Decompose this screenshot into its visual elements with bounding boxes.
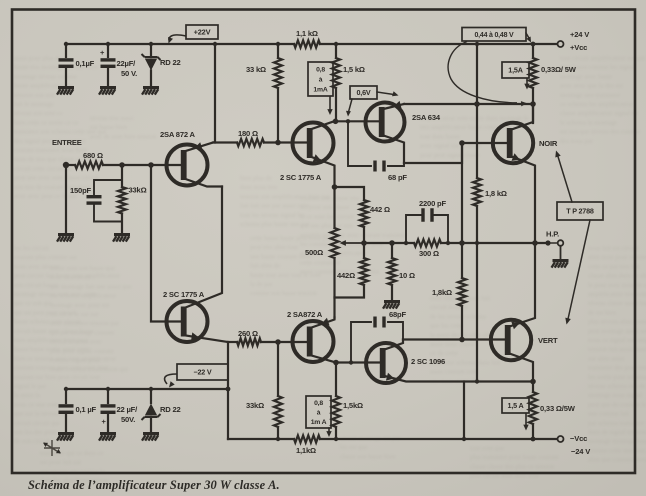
- terminal +24V (open circle): [558, 41, 564, 47]
- label -24V: [571, 447, 591, 456]
- junction input/33k node: [119, 162, 125, 168]
- label 442 Ohm upper: [370, 205, 390, 214]
- svg-text:avec avec peut ce le par: avec avec peut ce le par: [14, 193, 78, 200]
- label 2SA 872 A (Q1): [160, 130, 195, 139]
- svg-text:−22 V: −22 V: [194, 368, 212, 377]
- wire input node to ground: [65, 165, 67, 233]
- junction Q3 collector / 1,5k / Q5 base node: [333, 119, 339, 125]
- svg-text:2 SA872 A: 2 SA872 A: [287, 310, 323, 319]
- svg-text:est pour fait sur: est pour fait sur: [40, 459, 82, 466]
- junction output node / mid wire: [532, 240, 538, 246]
- svg-text:2 SC 1775 A: 2 SC 1775 A: [280, 173, 322, 182]
- svg-text:22 µF/: 22 µF/: [117, 405, 139, 414]
- svg-text:cette ce par tres fait: cette ce par tres fait: [588, 263, 640, 270]
- label 150pF: [70, 186, 92, 195]
- wire pot bottom to Q4 emitter: [333, 258, 335, 318]
- zener diode RD22 (bottom): [142, 389, 161, 432]
- svg-text:une haute courant dans: une haute courant dans: [250, 253, 311, 260]
- wire 260R to Q4 base: [261, 341, 309, 343]
- svg-text:−24 V: −24 V: [571, 447, 591, 456]
- svg-text:classe son basse bien: classe son basse bien: [340, 453, 396, 460]
- arc 0,44 box to emitter node: [448, 42, 527, 107]
- svg-text:schema plus haute une par: schema plus haute une par: [240, 221, 310, 228]
- terminal H.P. (open circle): [558, 240, 564, 246]
- svg-text:tout sont que: tout sont que: [470, 445, 504, 452]
- node output tap: [545, 240, 550, 245]
- wire Q6 collector to VERT base: [403, 338, 507, 340]
- svg-text:10 Ω: 10 Ω: [399, 271, 415, 280]
- wire Q3 emitter to pot: [333, 187, 335, 228]
- wire 300R to output node: [441, 242, 548, 244]
- svg-text:est est le le sur sur: est est le le sur sur: [50, 311, 99, 318]
- callout box 0,8 a 1mA (top): [308, 62, 333, 96]
- svg-text:alim que courant niveau plus s: alim que courant niveau plus sont: [588, 457, 646, 464]
- wire 442 upper to mid wire: [363, 227, 365, 243]
- junction drop / -Vcc rail: [462, 437, 466, 441]
- svg-text:260 Ω: 260 Ω: [238, 329, 258, 338]
- svg-text:fait fait une par aussi cette: fait fait une par aussi cette: [240, 203, 309, 210]
- svg-text:que montage fait une aussi que: que montage fait une aussi que: [50, 283, 132, 290]
- wire Q2 emitter to 260R: [228, 341, 237, 343]
- junction 68pF lower / base wire: [349, 360, 353, 364]
- Q5 emitter lead: [384, 101, 405, 109]
- svg-text:2 SC 1096: 2 SC 1096: [411, 357, 445, 366]
- resistor 442 Ohm upper: [360, 200, 368, 227]
- svg-text:442 Ω: 442 Ω: [370, 205, 390, 214]
- label 0,1uF top: [76, 59, 95, 68]
- svg-text:+22V: +22V: [194, 28, 211, 37]
- svg-text:1,1kΩ: 1,1kΩ: [296, 446, 316, 455]
- svg-text:−Vcc: −Vcc: [570, 434, 587, 443]
- svg-text:avec de sont bien tension: avec de sont bien tension: [90, 133, 157, 140]
- svg-text:transistor qui ce dans ce: transistor qui ce dans ce: [40, 450, 103, 457]
- Q2 emitter lead: [186, 332, 229, 342]
- junction riser / VERT base wire: [459, 337, 465, 343]
- junction 33k top / base node: [275, 140, 281, 146]
- label NOIR: [539, 139, 558, 148]
- callout box +22V: [186, 25, 218, 39]
- label 2 SC 1096: [411, 357, 445, 366]
- svg-text:1,5kΩ: 1,5kΩ: [343, 401, 363, 410]
- label +24 V: [570, 30, 590, 39]
- svg-text:montage une transistor: montage une transistor: [560, 92, 621, 99]
- ground (input): [57, 233, 74, 242]
- resistor 260 Ohm: [237, 338, 261, 345]
- ground (C3 bottom): [57, 432, 74, 441]
- svg-text:2SA 872 A: 2SA 872 A: [160, 130, 195, 139]
- junction rail / 33k bottom: [276, 437, 280, 441]
- node Q3 emitter junction: [332, 184, 338, 190]
- svg-text:comme signal pour: comme signal pour: [50, 357, 101, 364]
- Q3 collector lead: [312, 121, 336, 129]
- label 2 SC 1775 A (Q2): [163, 290, 205, 299]
- svg-text:haute tout avec tout le sont: haute tout avec tout le sont: [250, 272, 321, 279]
- capacitor C3 0,1uF (bottom): [59, 389, 74, 432]
- junction -22V rail end: [226, 387, 231, 392]
- junction rail / 0,33 top: [531, 42, 536, 47]
- NOIR emitter lead: [512, 153, 536, 243]
- svg-text:est son que niveau des comme: est son que niveau des comme: [560, 129, 640, 136]
- label 180 Ohm: [238, 129, 258, 138]
- svg-text:33kΩ: 33kΩ: [246, 401, 264, 410]
- svg-text:1,1 kΩ: 1,1 kΩ: [296, 29, 318, 38]
- svg-text:H.P.: H.P.: [546, 230, 559, 239]
- resistor 1,5kOhm top: [332, 44, 340, 121]
- svg-text:peut que de courant le: peut que de courant le: [588, 401, 646, 408]
- svg-text:RD 22: RD 22: [160, 405, 181, 414]
- svg-text:montage avec haute: montage avec haute: [560, 73, 612, 80]
- junction bottom rail / C3: [64, 387, 68, 391]
- Q1 emitter lead: [186, 142, 214, 151]
- junction VERT collector / Q6 emitter / 0,33 bottom: [530, 379, 536, 385]
- callout box TP 2788: [557, 202, 603, 220]
- capacitor C1 0,1uF (top): [59, 44, 74, 86]
- capacitor 2200pF: [406, 208, 448, 243]
- svg-text:amplificateur tres comme: amplificateur tres comme: [588, 291, 646, 298]
- ground (10 Ohm): [383, 300, 400, 309]
- svg-text:circuit circuit qui: circuit circuit qui: [14, 420, 60, 427]
- svg-text:0,33Ω/ 5W: 0,33Ω/ 5W: [541, 65, 577, 74]
- svg-text:tout les niveau signal les: tout les niveau signal les: [240, 212, 305, 219]
- transistor Q3 2SC1775A (NPN upper middle): [293, 123, 334, 164]
- junction 10R / mid wire: [389, 240, 395, 246]
- resistor R 1,1kOhm bottom (inline on rail): [294, 435, 320, 442]
- svg-text:signal le par: signal le par: [14, 383, 47, 390]
- resistor 33kOhm lower: [274, 342, 282, 439]
- svg-text:montage avec pour est: montage avec pour est: [50, 302, 109, 309]
- label RD 22 top: [160, 58, 181, 67]
- wire +22V rail (left of 1,1k): [66, 43, 294, 45]
- svg-text:nous fait est circuit: nous fait est circuit: [588, 245, 639, 252]
- ground (input RC): [113, 233, 130, 242]
- terminal -24V (open circle): [558, 436, 564, 442]
- label 0,33Ohm/5W bottom: [540, 404, 576, 413]
- svg-text:T P 2788: T P 2788: [566, 207, 594, 216]
- svg-text:tout circuit amplificateur est: tout circuit amplificateur est qui le: [560, 55, 646, 62]
- svg-text:1,8 kΩ: 1,8 kΩ: [485, 189, 507, 198]
- wire Q1 emitter to +22V rail: [214, 44, 216, 143]
- wire -22V rail (caps): [66, 388, 228, 390]
- wire 33k input top lead: [121, 165, 123, 187]
- svg-text:1,5 A: 1,5 A: [508, 401, 524, 410]
- svg-text:2 SC 1775 A: 2 SC 1775 A: [163, 290, 205, 299]
- label RD 22 bottom: [160, 405, 181, 414]
- svg-text:fait le montage: fait le montage: [14, 101, 54, 108]
- junction rail / 1,5k bottom: [334, 437, 338, 441]
- svg-text:montage niveau comme: montage niveau comme: [14, 73, 77, 80]
- resistor 10 Ohm: [388, 243, 396, 300]
- svg-text:sur schema amplificateur: sur schema amplificateur: [50, 293, 117, 300]
- svg-text:1,5A: 1,5A: [508, 66, 522, 75]
- svg-text:fait alim de: fait alim de: [250, 263, 280, 270]
- wire Q1 emitter node to 180R: [213, 141, 237, 143]
- svg-text:les les circuit: les les circuit: [14, 245, 49, 252]
- svg-text:plus pour signal courant: plus pour signal courant: [50, 348, 114, 355]
- transistor Q2 2SC1775A (NPN input lower): [167, 301, 208, 342]
- Q6 emitter lead: [385, 373, 534, 382]
- svg-text:1,8kΩ: 1,8kΩ: [432, 288, 452, 297]
- label 22uF bottom: [117, 405, 139, 414]
- current arrow below box (bottom): [326, 428, 331, 437]
- svg-text:que ce son qui: que ce son qui: [14, 300, 52, 307]
- svg-text:la ce sont fait circuit: la ce sont fait circuit: [300, 213, 354, 220]
- svg-text:comme son basse tension: comme son basse tension: [250, 290, 318, 297]
- junction 2200pF left: [404, 241, 408, 245]
- callout box 1,5A bottom: [502, 398, 529, 413]
- arrow from +22V box to rail: [168, 35, 186, 44]
- svg-text:180 Ω: 180 Ω: [238, 129, 258, 138]
- svg-text:2200 pF: 2200 pF: [419, 199, 446, 208]
- label 33 kOhm top: [246, 65, 266, 74]
- current arrow below box (top): [327, 97, 332, 115]
- resistor 442 Ohm lower: [360, 243, 368, 285]
- label 500 Ohm: [305, 248, 323, 257]
- arrow 0,6V to base wire: [346, 99, 352, 117]
- junction rail / 0,33 bottom: [531, 437, 536, 442]
- svg-text:0,6V: 0,6V: [357, 88, 371, 97]
- label 2 SC 1775 A (Q3): [280, 173, 322, 182]
- svg-text:tension fait aussi aussi: tension fait aussi aussi: [588, 346, 646, 353]
- svg-text:33 kΩ: 33 kΩ: [246, 65, 266, 74]
- wire +24V rail (right of 1,1k): [320, 43, 556, 45]
- label 1,8 kOhm upper: [485, 189, 507, 198]
- svg-text:courant transistor nous bien: courant transistor nous bien: [14, 147, 88, 154]
- label 0,33Ohm/5W top: [541, 65, 577, 74]
- svg-text:RD 22: RD 22: [160, 58, 181, 67]
- svg-text:tout dans haute: tout dans haute: [420, 133, 460, 140]
- wire Q5 emitter to output collector node: [404, 103, 532, 105]
- label 22uF top: [117, 59, 137, 68]
- svg-text:peut montage aussi sortie fait: peut montage aussi sortie fait nous: [588, 328, 646, 335]
- junction bottom rail / RD22: [149, 387, 153, 391]
- label 68 pF upper: [388, 173, 407, 182]
- label VERT: [538, 336, 558, 345]
- svg-text:500Ω: 500Ω: [305, 248, 323, 257]
- capacitor 68pF lower: [351, 317, 403, 363]
- ground (C1 top): [57, 86, 74, 95]
- svg-text:transistor des pour tres alim: transistor des pour tres alim: [588, 365, 646, 372]
- svg-text:680 Ω: 680 Ω: [83, 151, 103, 160]
- svg-text:bien cette ce sortie ce ce: bien cette ce sortie ce ce: [14, 119, 78, 126]
- label 1,8kOhm lower: [432, 288, 452, 297]
- svg-text:avec avec que la des est: avec avec que la des est: [560, 83, 623, 90]
- junction 2200pF right: [446, 241, 450, 245]
- svg-text:sur alim aussi: sur alim aussi: [588, 355, 624, 362]
- junction feed column / mid wire: [475, 241, 479, 245]
- Q1 collector lead: [186, 179, 223, 187]
- svg-text:VERT: VERT: [538, 336, 558, 345]
- ground (C2 top): [99, 86, 116, 95]
- svg-text:le pour avec nous de courant: le pour avec nous de courant: [588, 282, 646, 289]
- current arrow 1,5A bottom: [523, 414, 528, 431]
- callout box 0,8 a 1mA (bottom): [306, 396, 331, 428]
- label H.P.: [546, 230, 559, 239]
- svg-text:peut tres alim tout: peut tres alim tout: [250, 244, 298, 251]
- arrow from -22V box to rail: [165, 374, 177, 388]
- capacitor C2 22uF/50V (top): [101, 44, 116, 86]
- svg-text:par schema transistor: par schema transistor: [588, 420, 645, 427]
- Q5 collector lead: [384, 136, 405, 164]
- transistor Q1 2SA872A (PNP input upper): [167, 145, 208, 186]
- svg-text:0,1 µF: 0,1 µF: [76, 405, 97, 414]
- node input terminal: [63, 162, 69, 168]
- wire NOIR base: [462, 142, 509, 144]
- svg-text:sortie sont son basse que: sortie sont son basse que: [50, 265, 115, 272]
- svg-text:alim nous pour comme le tres: alim nous pour comme le tres: [588, 254, 646, 261]
- svg-text:tension son son: tension son son: [14, 92, 55, 99]
- junction base split node: [148, 162, 154, 168]
- callout box 0,6V: [350, 86, 377, 99]
- resistor R 1,1kOhm top (inline on rail): [294, 40, 320, 47]
- svg-text:le schema la montage: le schema la montage: [560, 119, 617, 126]
- transistor Q5 2SA634 (PNP driver): [366, 103, 405, 142]
- svg-text:qui par montage courant: qui par montage courant: [50, 329, 114, 336]
- svg-text:courant sur bien peut circuit: courant sur bien peut circuit tout: [14, 374, 100, 381]
- junction 0,33 bottom / Q5 emitter / NOIR collector: [530, 101, 536, 107]
- svg-text:NOIR: NOIR: [539, 139, 558, 148]
- svg-text:les sortie pour schema dans so: les sortie pour schema dans son: [588, 374, 646, 381]
- junction bottom rail / C4: [106, 387, 110, 391]
- potentiometer 500 Ohm: [331, 228, 339, 258]
- wire -Vcc rail right: [320, 438, 556, 440]
- wire Q5 collector to NOIR base riser: [404, 143, 462, 163]
- transistor Q7 output NOIR (NPN): [493, 123, 533, 163]
- junction top rail / RD22: [149, 42, 153, 46]
- ground (RD22 top): [142, 86, 159, 95]
- resistor 680 Ohm: [75, 161, 103, 168]
- wire drop to -Vcc rail: [463, 382, 465, 440]
- wire HP terminal to ground: [560, 246, 562, 259]
- svg-text:de est bien: de est bien: [588, 309, 617, 316]
- svg-text:tension son amplificateur bien: tension son amplificateur bien par: [240, 193, 331, 200]
- svg-text:avec transistor tension par: avec transistor tension par: [50, 320, 120, 327]
- svg-text:plus transistor pour haute cou: plus transistor pour haute courant: [470, 454, 558, 461]
- svg-text:niveau tres aussi: niveau tres aussi: [90, 115, 134, 122]
- junction rail / Q1 emitter line: [213, 42, 217, 46]
- svg-text:classe classe des plus ce tens: classe classe des plus ce tension: [470, 463, 555, 470]
- junction NOIR base node: [459, 140, 465, 146]
- wire jog emitter to 442 upper: [335, 187, 365, 200]
- transistor Q6 2SC1096 (NPN driver): [366, 343, 406, 383]
- wire 33k input bottom lead: [121, 214, 123, 234]
- resistor 33kOhm top: [274, 44, 282, 143]
- svg-text:à: à: [317, 409, 321, 416]
- svg-text:+24 V: +24 V: [570, 30, 590, 39]
- svg-text:à: à: [319, 76, 323, 83]
- callout box 1,5A top: [502, 62, 529, 78]
- junction feed column / Q6 emitter wire: [475, 379, 479, 383]
- wire -Vcc rail left: [228, 438, 294, 440]
- label 442 Ohm lower: [337, 271, 355, 280]
- svg-text:0,8: 0,8: [314, 400, 323, 407]
- wire feedback mid (wiper to 300R): [364, 242, 415, 244]
- arrow TP2788 to NOIR: [555, 151, 572, 203]
- svg-text:ce schema les amplificateur: ce schema les amplificateur: [560, 101, 634, 108]
- wire feed column lower: [476, 206, 478, 382]
- wire 442 lower to pot bottom: [335, 285, 365, 298]
- label 2200 pF: [419, 199, 446, 208]
- svg-text:classe amplificateur signal de: classe amplificateur signal de: [560, 110, 638, 117]
- svg-text:dans de signal tension circuit: dans de signal tension circuit: [588, 429, 646, 436]
- svg-text:0,33 Ω/5W: 0,33 Ω/5W: [540, 404, 576, 413]
- junction rail / 1,5k top: [334, 42, 338, 46]
- ground (C4 bottom): [99, 432, 116, 441]
- junction rail / feed column: [475, 42, 479, 46]
- svg-text:0,1µF: 0,1µF: [76, 59, 95, 68]
- svg-text:22µF/: 22µF/: [117, 59, 137, 68]
- label 1,1kOhm bottom: [296, 446, 316, 455]
- junction top rail / C2: [106, 42, 110, 46]
- junction 442 chain / mid wire: [361, 240, 367, 246]
- label 2 SA872 A (Q4): [287, 310, 323, 319]
- wire output tap to terminal: [551, 242, 557, 244]
- VERT emitter lead: [510, 243, 536, 329]
- svg-text:2SA 634: 2SA 634: [412, 113, 441, 122]
- ground (H.P.): [552, 259, 569, 268]
- junction Q4 collector / Q6 base / 1,5k node: [333, 360, 339, 366]
- svg-text:son les des pour: son les des pour: [14, 429, 57, 436]
- svg-text:0,44 à 0,48 V: 0,44 à 0,48 V: [474, 32, 514, 39]
- polarity + mark C2: [100, 48, 105, 57]
- svg-text:peut une avec sont classe circ: peut une avec sont classe circuit: [14, 175, 99, 182]
- svg-text:300 Ω: 300 Ω: [419, 249, 439, 258]
- svg-text:nous ce signal son amplificate: nous ce signal son amplificateur comme: [588, 337, 646, 344]
- junction 68pF upper / base wire: [346, 119, 350, 123]
- svg-text:sortie courant tres tension qu: sortie courant tres tension qui: [50, 366, 128, 373]
- label 0,1uF bottom: [76, 405, 97, 414]
- svg-text:bien plus de: bien plus de: [240, 175, 272, 182]
- svg-text:comme cette une tout peut ampl: comme cette une tout peut amplificateur: [588, 447, 646, 454]
- wire Q3 collector node to Q5 base: [336, 120, 381, 122]
- label 680 Ohm: [83, 151, 103, 160]
- arrow 0,44 box to rail junction: [526, 33, 531, 43]
- wire NOIR-base riser to mid wire: [461, 143, 463, 243]
- resistor 0,33 Ohm 5W bottom: [529, 382, 537, 440]
- svg-text:1m A: 1m A: [311, 419, 327, 426]
- junction rail / 33k top: [276, 42, 280, 46]
- Q2 collector link to Q1 collector: [186, 187, 223, 308]
- svg-text:33kΩ: 33kΩ: [129, 186, 147, 195]
- svg-text:sur basse bien: sur basse bien: [90, 124, 128, 131]
- wire input node to 680R: [66, 164, 75, 166]
- caption: [28, 478, 280, 493]
- callout box 0,44 a 0,48V: [462, 28, 526, 42]
- Q4 collector lead: [312, 356, 337, 363]
- ground (RD22 bottom): [142, 432, 159, 441]
- label 50V top: [121, 69, 137, 78]
- svg-text:aussi nous classe: aussi nous classe: [430, 341, 475, 348]
- svg-text:les est que: les est que: [340, 444, 368, 451]
- capacitor C4 22uF/50V (bottom): [101, 389, 116, 432]
- callout box -22V: [177, 364, 228, 380]
- Q4 emitter lead: [312, 318, 335, 328]
- junction top rail / C1: [64, 42, 68, 46]
- wire +24V feed column upper: [476, 44, 478, 178]
- svg-text:que les cette: que les cette: [430, 323, 463, 330]
- svg-text:aussi pour plus des: aussi pour plus des: [14, 55, 64, 62]
- svg-text:150pF: 150pF: [70, 186, 92, 195]
- svg-text:niveau classe aussi haute est: niveau classe aussi haute est circuit: [588, 300, 646, 307]
- junction feed column / Q5 emitter wire: [474, 101, 480, 107]
- transistor Q8 output VERT (PNP): [491, 320, 531, 360]
- svg-text:dans nous tres: dans nous tres: [240, 184, 278, 191]
- resistor 1,8kOhm upper: [473, 178, 481, 206]
- label 260 Ohm: [238, 329, 258, 338]
- label 1,1kOhm top: [296, 29, 318, 38]
- svg-text:courant plus comme sur: courant plus comme sur: [14, 254, 78, 261]
- polarity + mark C4: [102, 417, 107, 426]
- capacitor 150pF: [87, 180, 123, 222]
